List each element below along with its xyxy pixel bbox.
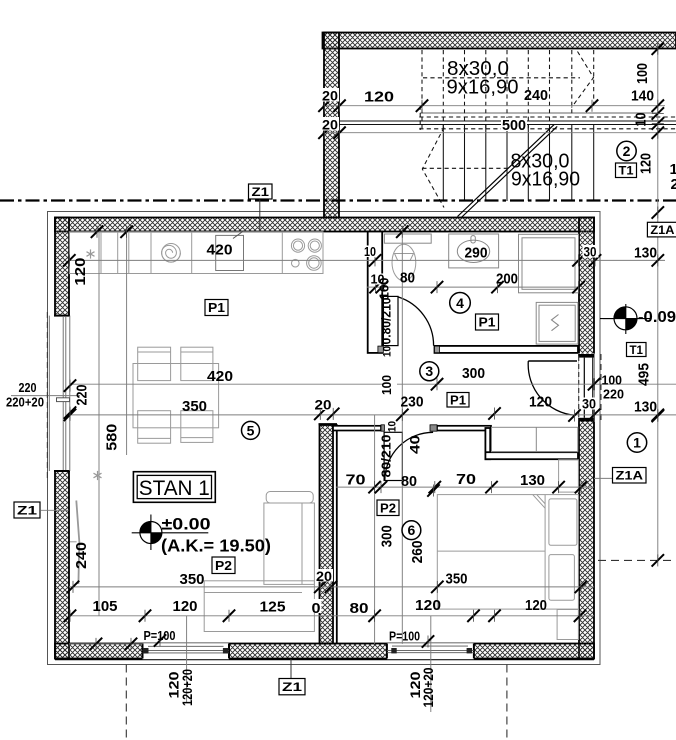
text label 10	[363, 246, 377, 258]
svg-text:350: 350	[446, 571, 468, 588]
balcony door leaf against wall	[76, 501, 79, 585]
dim tick	[368, 481, 380, 493]
svg-text:P1: P1	[450, 392, 466, 407]
leader Z1 top	[259, 198, 261, 232]
dim tick	[652, 127, 664, 139]
svg-text:500: 500	[502, 117, 526, 134]
door jamb block bedroom left	[381, 425, 384, 431]
dim tick	[64, 409, 76, 421]
svg-text:20: 20	[316, 568, 332, 584]
wall apartment top	[55, 218, 594, 232]
stair tread lower	[442, 125, 444, 201]
entrance opening right wall	[578, 354, 594, 422]
wall hallway south seg right	[437, 426, 491, 431]
dim line vertical bottom x430	[430, 616, 432, 712]
svg-text:±0.00: ±0.00	[162, 515, 211, 534]
window left frame lines	[49, 316, 70, 471]
wall stair-block left	[324, 33, 339, 218]
dim tick	[652, 43, 664, 55]
svg-text:420: 420	[207, 368, 233, 385]
dim tick	[396, 226, 408, 238]
stair walk line lower flight	[422, 167, 510, 169]
chair top-right	[181, 347, 213, 380]
bed mattress split	[437, 550, 545, 552]
text label 500	[501, 118, 527, 131]
svg-text:2: 2	[671, 176, 676, 193]
stair landing dashed outline	[419, 116, 676, 118]
stair tread upper (dashed)	[549, 50, 551, 129]
svg-text:STAN 1: STAN 1	[139, 477, 210, 500]
stair tread upper (dashed)	[442, 50, 444, 129]
dim tick	[574, 610, 586, 622]
dim line y615	[69, 615, 594, 617]
elevation line right	[603, 318, 640, 320]
chair bottom-right	[181, 411, 213, 443]
dim tick	[318, 100, 330, 112]
door entrance leaf	[528, 360, 577, 362]
svg-text:100: 100	[634, 63, 651, 84]
room number 1	[627, 433, 646, 452]
dim line left 220 chain	[11, 395, 80, 397]
stair walk line upper flight	[423, 77, 580, 79]
dim tick	[652, 554, 664, 566]
stair tread lower	[506, 125, 508, 201]
kitchen counter divider	[128, 232, 130, 274]
dining table	[133, 364, 219, 428]
washbasin	[457, 240, 489, 262]
wall apartment left	[55, 218, 69, 659]
room number 3	[420, 362, 439, 381]
dim tick	[652, 410, 664, 422]
dim tick	[575, 581, 587, 593]
svg-text:100: 100	[602, 373, 623, 388]
nightstand top	[559, 460, 579, 492]
stair tread upper (dashed)	[527, 50, 529, 129]
dim line y587	[69, 586, 594, 588]
svg-text:1: 1	[633, 435, 641, 451]
svg-text:220: 220	[603, 387, 624, 402]
dim tick	[429, 481, 441, 493]
room number 6	[402, 521, 421, 540]
facade outer offset line	[48, 212, 601, 665]
svg-text:P1: P1	[479, 315, 496, 330]
svg-text:290: 290	[465, 245, 488, 262]
dim tick	[416, 100, 428, 112]
label P1 kitchen	[205, 300, 228, 316]
pillow 2	[549, 555, 575, 601]
svg-text:20: 20	[315, 397, 332, 413]
text label 30	[583, 245, 599, 258]
dim tick	[572, 281, 584, 293]
text label 10	[633, 113, 650, 127]
bed outline	[437, 495, 578, 609]
window left mullion	[57, 398, 70, 402]
stair tread upper (dashed)	[506, 50, 508, 129]
leader 420 square	[233, 230, 246, 239]
label T1 right	[627, 343, 647, 357]
svg-text:20: 20	[322, 88, 338, 104]
label P2 living	[212, 557, 235, 574]
svg-text:220: 220	[19, 380, 37, 395]
text label 120	[72, 258, 89, 286]
text label 20	[315, 569, 333, 582]
dim tick	[467, 610, 479, 622]
svg-text:Z1: Z1	[252, 185, 270, 199]
wall closet south	[485, 452, 578, 459]
bed pillow divider	[544, 495, 546, 609]
dim tick	[488, 407, 500, 419]
dim tick	[396, 409, 408, 421]
dim line stairs y132	[323, 132, 676, 134]
svg-text:30: 30	[582, 396, 596, 412]
dim line bath y287	[367, 286, 578, 288]
svg-text:350: 350	[182, 398, 207, 415]
svg-text:140: 140	[631, 88, 654, 105]
wall closet jog vertical	[485, 428, 490, 459]
dim tick	[154, 634, 166, 646]
dim tick	[431, 581, 443, 593]
dim tick	[91, 226, 103, 238]
svg-text:T1: T1	[630, 343, 644, 357]
pillow 1	[549, 499, 577, 545]
label Z1 top	[249, 184, 273, 199]
stair cut-line chevron lower	[422, 128, 444, 208]
text label 260	[409, 540, 426, 563]
text label 40	[407, 435, 423, 454]
text label 580	[103, 424, 120, 451]
washer symbol	[552, 315, 559, 331]
text label 20	[321, 88, 339, 102]
dim tick	[485, 481, 497, 493]
svg-text:300: 300	[462, 365, 485, 382]
stair walk line dashed vertical	[419, 106, 421, 131]
dim tick	[369, 281, 381, 293]
dim tick	[431, 378, 443, 390]
wall bathroom left partition	[368, 232, 383, 353]
label P1 bath	[476, 314, 499, 330]
svg-text:130: 130	[634, 399, 657, 416]
svg-text:-0.09: -0.09	[638, 309, 676, 326]
dim line inner face bottom	[69, 643, 143, 645]
dim tick	[589, 254, 601, 266]
stair tread upper (dashed)	[571, 50, 573, 117]
svg-text:(A.K.= 19.50): (A.K.= 19.50)	[161, 536, 271, 556]
facade dashed across entrance	[600, 354, 602, 422]
svg-text:T1: T1	[619, 164, 634, 178]
entrance frame lines	[584, 358, 593, 418]
label T1 stairs	[616, 163, 637, 178]
window jamb blocks bottom-left	[143, 648, 149, 654]
stair tread lower	[464, 125, 466, 201]
text label 10	[387, 421, 399, 432]
kitchen sink square	[216, 235, 244, 270]
text label 30	[581, 398, 597, 410]
text label 100	[385, 375, 398, 396]
svg-text:100: 100	[379, 375, 394, 395]
svg-text:200: 200	[496, 271, 518, 288]
dim tick	[652, 117, 664, 129]
door bedroom leaf	[384, 432, 402, 480]
dim tick	[586, 100, 598, 112]
door bath swing arc	[398, 297, 434, 346]
svg-text:130: 130	[520, 472, 545, 489]
stair tread upper (dashed)	[593, 50, 595, 104]
wall living/bedroom top cap	[319, 423, 338, 425]
dim line vertical right x658	[657, 49, 659, 561]
svg-text:220+20: 220+20	[6, 395, 44, 410]
svg-text:Z1: Z1	[282, 680, 302, 694]
door jamb block bath right	[435, 346, 440, 353]
text label 120+20	[420, 667, 436, 707]
wall bathroom bottom partition	[435, 346, 579, 353]
dashed facade line left	[46, 312, 48, 478]
svg-text:120: 120	[638, 153, 655, 174]
text label 240	[73, 542, 90, 569]
STAN 1 plate	[133, 472, 215, 503]
svg-text:10: 10	[382, 346, 394, 357]
stair tread upper (dashed)	[485, 50, 487, 129]
dim tick	[652, 206, 664, 218]
toilet cistern	[384, 234, 431, 243]
dim tick	[139, 610, 151, 622]
dim tick	[652, 254, 664, 266]
text label 495	[636, 363, 653, 386]
room number 4	[450, 293, 471, 314]
label Z1A top	[647, 222, 676, 237]
dim tick	[63, 254, 75, 266]
dim tick	[327, 408, 339, 420]
sofa seat line	[204, 592, 302, 594]
label Z1 bottom	[279, 679, 305, 695]
kitchen counter divider	[100, 232, 102, 274]
svg-text:P2: P2	[215, 558, 232, 573]
text label 220	[73, 385, 90, 406]
entrance lintel bars	[578, 354, 594, 358]
svg-text:5: 5	[247, 422, 255, 438]
wall bottom outer thick edge	[55, 658, 594, 660]
dim tick	[120, 226, 132, 238]
svg-text:120: 120	[529, 394, 552, 411]
window opening bottom-left	[143, 643, 230, 659]
dim tick	[64, 406, 76, 418]
dim line kitchen-bath y260	[69, 259, 665, 261]
svg-text:120+20: 120+20	[420, 667, 436, 707]
centreline dash-dot	[0, 199, 676, 201]
svg-text:4: 4	[456, 295, 464, 311]
window jamb blocks bottom-middle	[391, 648, 396, 653]
svg-text:10: 10	[387, 421, 399, 432]
dim tick	[318, 127, 330, 139]
door bath leaf	[383, 296, 398, 345]
bed fold corner	[533, 495, 545, 509]
dim tick	[652, 409, 664, 421]
closet interior	[492, 427, 578, 451]
svg-text:420: 420	[207, 242, 233, 259]
text label 120+20	[179, 669, 195, 706]
dim tick	[491, 281, 503, 293]
text label 0	[311, 599, 322, 613]
room number 5	[242, 421, 260, 439]
svg-text:P2: P2	[380, 500, 396, 515]
dim tick	[652, 100, 664, 112]
svg-text:130: 130	[634, 245, 657, 262]
dim tick	[572, 254, 584, 266]
sofa armrest	[266, 492, 313, 504]
text label 300	[379, 525, 396, 547]
label Z1 left	[14, 502, 40, 518]
stair stringer double diagonal	[458, 125, 555, 217]
elevation marker right	[600, 304, 651, 334]
chair bottom-left	[138, 411, 171, 444]
label P2 bedroom	[377, 500, 399, 516]
kitchen spiral hob	[162, 244, 181, 263]
wall living/bedroom inner face line	[336, 424, 338, 643]
faucet	[471, 236, 475, 243]
svg-text:240: 240	[73, 542, 90, 569]
stair tread lower	[571, 125, 573, 201]
dashed boundary right	[598, 559, 676, 561]
text label 120	[166, 671, 182, 698]
svg-text:Z1: Z1	[17, 503, 37, 517]
leader Z1 bottom	[290, 659, 292, 679]
shower	[519, 234, 579, 292]
door jamb block bath left	[378, 346, 383, 353]
svg-text:10: 10	[633, 113, 650, 127]
wall living/bedroom hatched	[320, 425, 334, 644]
svg-text:120: 120	[72, 258, 89, 286]
svg-text:80/210: 80/210	[380, 434, 394, 477]
svg-text:9x16,90: 9x16,90	[511, 169, 580, 191]
svg-text:220: 220	[73, 385, 90, 406]
svg-text:70: 70	[346, 472, 366, 489]
dashed axis bottom-left	[125, 665, 127, 740]
text label 120	[407, 671, 423, 698]
svg-text:10: 10	[364, 244, 376, 259]
text label 10	[370, 274, 386, 285]
dim tick	[575, 481, 587, 493]
dim tick	[64, 610, 76, 622]
dim line vertical x402	[401, 232, 403, 644]
svg-text:495: 495	[636, 363, 653, 386]
stair tread upper (dashed)	[464, 50, 466, 129]
dim line rooms y384	[70, 383, 676, 385]
dim tick	[333, 100, 345, 112]
dim line vertical x99	[98, 232, 100, 616]
dim tick	[652, 107, 664, 119]
svg-text:580: 580	[103, 424, 120, 451]
dim tick	[223, 610, 235, 622]
dim tick	[431, 281, 443, 293]
dim line hall y415	[70, 414, 676, 416]
nightstand bottom	[557, 610, 578, 640]
svg-text:120: 120	[525, 597, 547, 614]
svg-text:160: 160	[377, 278, 392, 300]
svg-text:70: 70	[456, 471, 476, 488]
dim tick	[333, 127, 345, 139]
label P1 hall	[447, 392, 469, 407]
wall hallway south seg left	[333, 426, 381, 431]
dim tick	[67, 581, 79, 593]
dim line stairs y105	[323, 105, 666, 107]
text label 20	[321, 117, 339, 131]
kitchen counter divider	[117, 232, 119, 274]
window opening bottom-middle	[387, 643, 474, 659]
text label 0.80/210	[379, 298, 394, 345]
svg-text:40: 40	[407, 435, 423, 454]
stair tread upper (dashed)	[421, 50, 423, 129]
svg-text:260: 260	[409, 540, 426, 563]
stair landing top thin	[420, 112, 658, 114]
stair landing dashed outline inner	[419, 128, 676, 130]
kitchen counter	[69, 232, 323, 274]
svg-text:P=100: P=100	[389, 629, 420, 644]
dim tick	[588, 409, 600, 421]
dim tick	[125, 638, 137, 650]
dim tick	[588, 378, 600, 390]
asterisk mark	[93, 471, 101, 480]
svg-text:6: 6	[408, 522, 416, 538]
asterisk mark	[86, 249, 94, 258]
svg-text:105: 105	[93, 598, 118, 615]
dim line bedroom y487	[336, 486, 594, 488]
text label 80/210	[380, 434, 394, 477]
cooktop burners	[291, 239, 321, 270]
dim line vertical x374	[374, 415, 376, 644]
door bedroom swing arc	[385, 432, 433, 480]
text label 160	[377, 278, 392, 300]
svg-text:80: 80	[401, 473, 417, 490]
svg-text:30: 30	[584, 244, 597, 260]
text label 120	[638, 153, 655, 174]
elevation marker living	[132, 515, 209, 551]
svg-text:Z1A: Z1A	[650, 223, 674, 237]
dim line vertical x126	[126, 232, 128, 456]
dim tick	[314, 581, 326, 593]
toilet bowl	[392, 244, 416, 281]
stair tread lower	[485, 125, 487, 201]
sofa backrest line	[301, 503, 303, 584]
washing machine	[536, 302, 578, 344]
text label 20	[314, 398, 333, 411]
wall stair-block top	[323, 33, 676, 49]
text label 100	[634, 63, 651, 84]
svg-text:Z1A: Z1A	[616, 469, 644, 483]
svg-text:P1: P1	[208, 300, 225, 315]
svg-text:80: 80	[350, 600, 369, 617]
svg-text:P=100: P=100	[144, 628, 176, 643]
dashed axis bottom-middle	[506, 665, 508, 740]
vanity	[449, 234, 499, 268]
svg-text:120: 120	[415, 597, 441, 614]
dim tick	[427, 484, 439, 496]
svg-text:0: 0	[312, 600, 321, 617]
leader Z1A mid	[594, 477, 613, 479]
kitchen counter divider	[281, 232, 283, 274]
door jamb block bedroom right	[430, 425, 437, 431]
entrance wall face dashed	[578, 356, 580, 420]
leader Z1 left	[41, 509, 69, 511]
sofa chaise	[264, 503, 315, 584]
dim line vertical bottom x186	[186, 616, 188, 702]
dim tick	[488, 610, 500, 622]
text label 10	[382, 346, 394, 357]
room number 2	[617, 141, 636, 160]
chair top-left	[138, 347, 171, 380]
stair landing edge solid double	[339, 120, 676, 122]
kitchen counter divider	[150, 232, 152, 274]
svg-text:300: 300	[379, 525, 396, 547]
svg-text:350: 350	[180, 571, 205, 588]
